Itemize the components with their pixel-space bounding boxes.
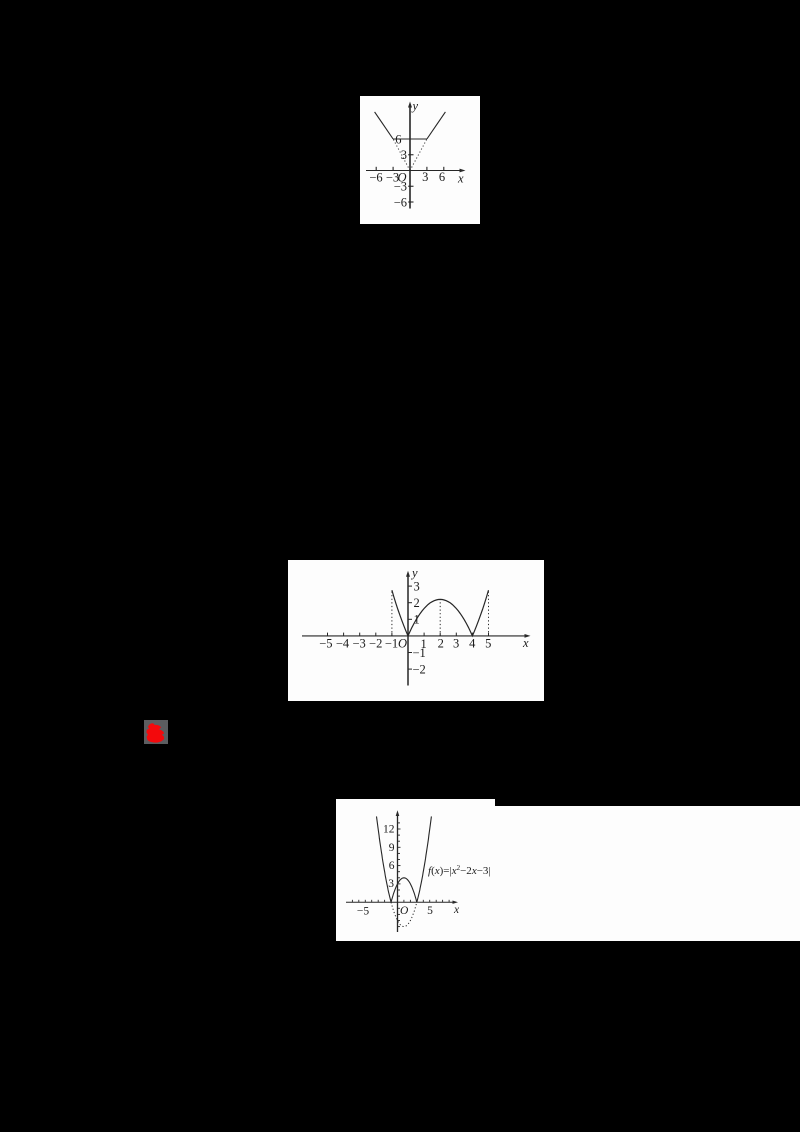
dashed line origin to (3,6) (410, 139, 427, 171)
svg-text:x: x (453, 904, 460, 916)
dotted vertical x=5 (488, 592, 490, 636)
x-axis arrowhead (453, 901, 459, 904)
svg-text:−5: −5 (319, 637, 332, 651)
curve right solid branch (417, 816, 432, 902)
svg-text:4: 4 (469, 637, 476, 651)
curve left solid branch (377, 816, 392, 902)
svg-text:−6: −6 (394, 196, 407, 210)
y-axis unit ticks (398, 895, 401, 897)
curve left slant branch (375, 112, 394, 139)
svg-text:3: 3 (401, 148, 407, 162)
y-axis (409, 105, 411, 209)
svg-text:−5: −5 (357, 906, 369, 918)
svg-text:2: 2 (414, 596, 420, 610)
svg-text:6: 6 (395, 133, 401, 147)
svg-text:f(x)=|x2−2x−3|: f(x)=|x2−2x−3| (428, 864, 491, 877)
svg-text:−4: −4 (336, 637, 350, 651)
svg-text:3: 3 (453, 637, 459, 651)
svg-text:1: 1 (414, 613, 420, 627)
x-axis tick -3 (392, 167, 394, 171)
red marker: red glyph (144, 720, 168, 744)
figure 2 white panel (288, 560, 544, 701)
svg-text:−2: −2 (369, 637, 382, 651)
svg-text:6: 6 (439, 170, 445, 184)
x-axis tick 3 (426, 167, 428, 171)
y-axis arrowhead (406, 571, 410, 577)
svg-text:12: 12 (383, 824, 395, 836)
curve horizontal segment y=6 (393, 138, 427, 140)
svg-text:−1: −1 (385, 637, 398, 651)
y-axis tick 3 (408, 154, 413, 156)
x-axis (366, 170, 462, 172)
svg-text:6: 6 (389, 860, 395, 872)
y-axis tick -3 (408, 185, 413, 187)
curve y=0.55|x(x-4)| (392, 590, 489, 636)
svg-text:3: 3 (388, 878, 394, 890)
svg-text:−3: −3 (352, 637, 365, 651)
y-axis (397, 814, 399, 933)
x-axis tick -6 (375, 167, 377, 171)
y ticks (408, 585, 412, 587)
figure 1 white panel (360, 96, 480, 224)
svg-text:x: x (457, 172, 464, 186)
dotted original parabola (391, 902, 417, 926)
x-axis arrowhead (525, 634, 531, 638)
x-axis unit ticks (352, 823, 449, 927)
svg-text:−3: −3 (386, 171, 399, 185)
x-axis (302, 635, 527, 637)
svg-text:−2: −2 (413, 663, 426, 677)
y-axis tick -6 (408, 201, 413, 203)
dotted vertical x=-1 (391, 592, 393, 636)
curve reflected hump (391, 878, 417, 902)
svg-text:−6: −6 (369, 171, 382, 185)
svg-text:y: y (411, 99, 419, 113)
svg-text:O: O (400, 905, 409, 917)
svg-text:9: 9 (389, 842, 395, 854)
x-axis tick 6 (443, 167, 445, 171)
svg-text:5: 5 (427, 905, 433, 917)
x-axis arrowhead (460, 169, 466, 173)
y-axis (407, 574, 409, 686)
svg-text:1: 1 (420, 637, 426, 651)
svg-text:5: 5 (485, 637, 491, 651)
figure 3 white panel (main) (336, 806, 800, 941)
x ticks (327, 633, 329, 636)
figure 3 white panel (top-left step) (336, 799, 495, 809)
x-axis (346, 901, 455, 903)
svg-text:x: x (522, 636, 529, 650)
svg-text:O: O (398, 637, 407, 651)
curve right slant branch (427, 112, 446, 139)
svg-text:3: 3 (414, 580, 420, 594)
svg-text:2: 2 (438, 637, 444, 651)
svg-text:y: y (410, 566, 418, 580)
y-axis arrowhead (408, 102, 412, 108)
dotted vertical x=2 (439, 600, 441, 636)
red marker: gray square (144, 720, 168, 744)
svg-text:3: 3 (422, 170, 428, 184)
dashed line origin to (-3,6) (393, 139, 410, 171)
y-axis arrowhead (396, 810, 400, 816)
